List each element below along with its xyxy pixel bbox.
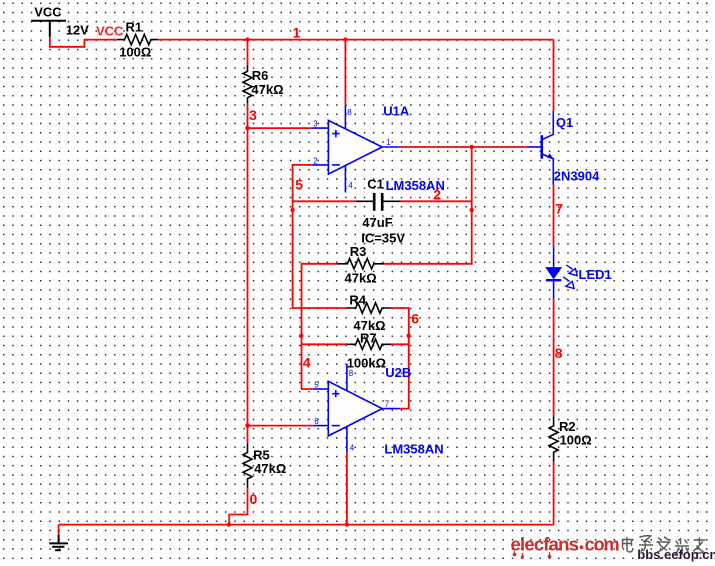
resistor R7	[347, 331, 391, 371]
wire R5 to ground rail	[229, 488, 247, 524]
wire net 5: U1A pin2 to C1 left and R4 left	[293, 165, 347, 308]
resistor R3	[337, 244, 384, 286]
svg-text:100Ω: 100Ω	[119, 45, 151, 60]
svg-text:1: 1	[386, 138, 391, 147]
svg-text:1: 1	[293, 24, 301, 40]
elecfans.com logo	[511, 533, 619, 558]
wire net 2: U1A out to Q1 base	[399, 146, 527, 148]
svg-text:6: 6	[314, 417, 319, 426]
U2B pin 8 stub	[346, 364, 348, 391]
watermark chinese characters	[623, 538, 633, 553]
op-amp U2B triangle	[328, 381, 382, 436]
U1A output pin 1 lead	[382, 146, 399, 148]
wire C1 right to net2	[401, 200, 472, 202]
svg-text:VCC: VCC	[34, 5, 62, 20]
svg-text:U1A: U1A	[383, 104, 410, 119]
junction top rail / U1A pin8	[343, 37, 347, 41]
resistor R1	[117, 19, 158, 59]
svg-text:8: 8	[349, 369, 354, 378]
wire net1 down to Q1 collector	[553, 40, 555, 111]
svg-text:R7: R7	[360, 331, 377, 346]
svg-text:47uF: 47uF	[362, 215, 392, 230]
junction net2 lower	[470, 208, 474, 212]
junction net6	[407, 334, 411, 338]
svg-text:3: 3	[313, 120, 318, 129]
U1A pin 8 stub	[344, 105, 346, 129]
U2B pin 4 stub	[346, 426, 348, 452]
wire net 3 left rail (R6 to R5)	[247, 104, 249, 444]
wire net2 vertical to C1 right and R3 right	[384, 147, 472, 264]
svg-text:47kΩ: 47kΩ	[345, 271, 377, 286]
wire U2B pin4 to ground rail	[346, 453, 348, 525]
resistor R6	[243, 65, 284, 104]
svg-text:R1: R1	[126, 19, 143, 34]
svg-text:7: 7	[385, 399, 390, 408]
svg-text:2: 2	[433, 187, 441, 203]
svg-text:VCC: VCC	[96, 24, 124, 39]
svg-text:R4: R4	[349, 293, 366, 308]
wire ground stub	[58, 525, 60, 535]
wire R7 right to net6	[391, 343, 409, 345]
ground symbol	[49, 535, 68, 550]
svg-text:100Ω: 100Ω	[560, 432, 592, 447]
svg-text:R6: R6	[252, 68, 269, 83]
wire net 1 top rail	[158, 39, 553, 41]
svg-text:2: 2	[313, 156, 318, 165]
svg-text:bbs.eefop.cn: bbs.eefop.cn	[637, 547, 715, 562]
svg-text:LM358AN: LM358AN	[384, 442, 443, 457]
svg-text:4: 4	[350, 443, 355, 452]
U1A pin numbers	[313, 108, 391, 190]
svg-text:5: 5	[314, 381, 319, 390]
wire net 7 emitter to LED	[553, 185, 555, 247]
transistor Q1	[527, 111, 600, 185]
svg-text:7: 7	[555, 200, 563, 216]
wire net 6: R4 right down to U2B pin7	[391, 308, 409, 409]
U1A pin 4 stub	[344, 166, 346, 193]
resistor R4	[347, 293, 391, 334]
LED1	[545, 246, 612, 299]
wire net5 branch to C1	[293, 200, 356, 202]
wire net4 branch to R7	[302, 343, 347, 345]
junction ground rail	[227, 522, 231, 526]
svg-text:C1: C1	[367, 177, 384, 192]
U1A plus sign	[332, 130, 339, 137]
junction net2 / right vertical	[470, 145, 474, 149]
wire net1 to R6	[247, 40, 249, 66]
svg-text:IC=35V: IC=35V	[361, 231, 405, 246]
U2B output pin 7 lead	[382, 408, 400, 410]
wire U1A pin8 to net1	[344, 40, 346, 106]
svg-text:8: 8	[347, 108, 352, 117]
svg-text:4: 4	[348, 181, 353, 190]
resistor R5	[243, 443, 286, 488]
U1A minus sign	[332, 164, 340, 166]
svg-text:6: 6	[411, 311, 419, 327]
junction net5	[290, 208, 294, 212]
wire net 8 LED to R2	[553, 299, 555, 417]
svg-text:LED1: LED1	[579, 267, 612, 282]
junction net4	[299, 334, 303, 338]
svg-text:U2B: U2B	[385, 365, 411, 380]
wire net 4: R3 left down to R7 left and U2B pin5	[302, 264, 338, 389]
junction net3 / U1A pin3	[245, 126, 249, 130]
svg-text:3: 3	[249, 107, 257, 123]
svg-text:12V: 12V	[66, 23, 89, 38]
svg-text:com: com	[585, 534, 619, 554]
junction left rail / U2B pin6	[245, 423, 249, 427]
junction pin4 / bottom rail	[345, 522, 349, 526]
svg-text:47kΩ: 47kΩ	[251, 82, 283, 97]
VCC power symbol	[31, 5, 66, 37]
wire left rail to U2B pin 6	[248, 425, 314, 427]
wire R2 to bottom rail	[553, 462, 555, 525]
U2B pin 6 lead	[314, 425, 329, 427]
svg-text:5: 5	[295, 177, 303, 193]
U1A pin 3 lead	[312, 127, 329, 129]
resistor R2	[549, 417, 592, 462]
U2B plus sign	[332, 390, 339, 397]
wire net 0 bottom rail	[59, 524, 554, 526]
wire net3 to U1A pin 3	[248, 127, 312, 129]
U2B pin numbers	[314, 369, 389, 453]
svg-text:8: 8	[555, 345, 563, 361]
svg-text:Q1: Q1	[556, 115, 573, 130]
svg-text:4: 4	[303, 354, 311, 370]
junction top rail / R6	[245, 37, 249, 41]
svg-text:47kΩ: 47kΩ	[254, 461, 286, 476]
svg-text:0: 0	[250, 491, 258, 507]
wire VCC to R1 (net VCC)	[50, 37, 118, 47]
svg-text:2N3904: 2N3904	[554, 169, 600, 184]
U2B minus sign	[332, 425, 340, 427]
svg-text:R3: R3	[350, 244, 367, 259]
U2B pin 5 lead	[314, 388, 329, 390]
op-amp U1A triangle	[328, 120, 382, 174]
U1A pin 2 lead	[312, 164, 329, 166]
svg-text:elecfans: elecfans	[511, 533, 579, 554]
capacitor C1	[356, 177, 406, 246]
